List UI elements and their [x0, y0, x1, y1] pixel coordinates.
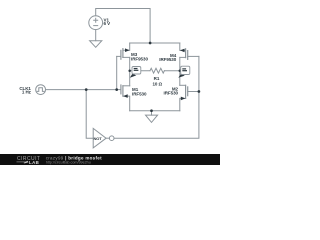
ground GND2 triangle [146, 115, 158, 122]
ground GND1 under V1 [90, 41, 102, 48]
wire V1 top to rail feeder [96, 9, 150, 44]
svg-text:IRF9530: IRF9530 [159, 57, 176, 62]
transistor M2 channel bar [185, 85, 187, 98]
clock source CLK1 circle [36, 85, 46, 95]
NOT gate apex stub [106, 137, 109, 139]
V1 minus sign [94, 25, 98, 27]
transistor M2 drain lead [180, 84, 186, 86]
NOT output wire to right gate column [114, 56, 199, 138]
svg-text:http://circuitlab.com/99e2hu: http://circuitlab.com/99e2hu [46, 160, 91, 164]
resistor R1 zigzag [150, 68, 164, 73]
M2 gate lead [188, 91, 199, 93]
probe bubble right [178, 66, 190, 78]
svg-text:1 Hz: 1 Hz [22, 89, 32, 94]
resistor R1 right lead [164, 70, 179, 72]
NOT gate input tap wire [86, 90, 93, 139]
M3 source arrow [125, 48, 130, 52]
NOT gate U1 triangle [93, 128, 106, 148]
voltage source V1 circle [89, 16, 103, 30]
svg-text:10 Ω: 10 Ω [152, 81, 162, 86]
transistor M4 channel bar [185, 49, 187, 58]
M3 gate lead [117, 55, 121, 57]
svg-text:LAB: LAB [29, 160, 39, 165]
probe bubble left [130, 67, 141, 78]
svg-text:6 V: 6 V [104, 21, 111, 26]
resistor R1 left lead [130, 70, 150, 72]
junction dot left gate column [115, 88, 118, 91]
left drain column wire [129, 57, 131, 85]
footer bar [0, 154, 220, 165]
junction dot CLK tap [85, 88, 88, 91]
transistor M3 drain lead [123, 56, 130, 59]
transistor M3 gate bar [120, 50, 122, 59]
transistor M4 source lead [180, 43, 186, 50]
V1 plus sign [94, 18, 98, 22]
svg-text:IRF530: IRF530 [132, 92, 147, 97]
bottom source rail wire [130, 110, 180, 112]
transistor M2 source lead [180, 98, 186, 110]
junction dot right gate column M2 [198, 90, 201, 93]
transistor M1 channel bar [122, 86, 124, 96]
junction dot rail feeder [149, 42, 152, 45]
transistor M2 gate bar [187, 87, 189, 96]
transistor M1 source lead [123, 96, 130, 111]
svg-text:IRF530: IRF530 [164, 91, 179, 96]
M1 gate lead [117, 89, 121, 91]
right drain column wire [179, 57, 181, 85]
footer logo wire line [17, 161, 27, 163]
left gate column wire [116, 56, 118, 89]
transistor M4 gate bar [187, 51, 189, 60]
CLK1 output wire [46, 89, 117, 91]
top rail wire [130, 42, 180, 44]
junction dot R1 left [128, 69, 131, 72]
transistor M1 drain lead [123, 85, 130, 87]
ground GND2 stub [151, 111, 153, 115]
M4 source arrow [180, 49, 185, 53]
svg-text:NOT: NOT [94, 136, 103, 141]
svg-text:R1: R1 [154, 76, 160, 81]
M1 source arrow [123, 94, 128, 98]
M2 source arrow [181, 97, 186, 101]
transistor M3 channel bar [122, 49, 124, 58]
junction dot R1 right [179, 69, 182, 72]
junction dot bottom rail [150, 109, 153, 112]
transistor M3 source lead [123, 43, 130, 50]
NOT gate output bubble [109, 136, 114, 141]
CLK1 square wave glyph [37, 88, 44, 92]
transistor M4 drain lead [180, 56, 186, 58]
M4 gate lead [188, 55, 199, 57]
wire V1 bottom to ground [95, 30, 97, 41]
transistor M1 gate bar [120, 85, 122, 94]
footer logo pencil [24, 161, 29, 164]
svg-text:IRF9530: IRF9530 [131, 57, 148, 62]
